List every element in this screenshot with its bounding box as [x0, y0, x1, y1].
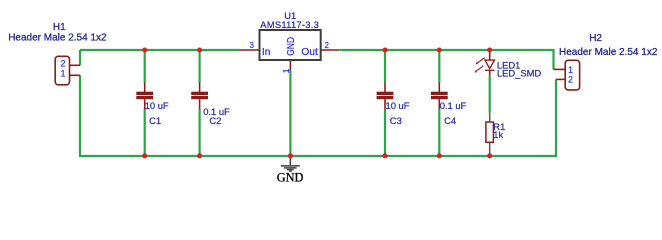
svg-text:H1: H1: [53, 22, 66, 33]
svg-text:1: 1: [281, 68, 291, 73]
svg-text:H2: H2: [589, 33, 602, 44]
svg-text:1k: 1k: [493, 129, 503, 140]
svg-text:2: 2: [568, 75, 573, 85]
svg-text:1: 1: [61, 68, 66, 78]
svg-text:3: 3: [250, 41, 255, 50]
svg-text:10 uF: 10 uF: [386, 100, 410, 111]
svg-text:1: 1: [568, 65, 573, 75]
svg-text:C1: C1: [149, 115, 161, 126]
svg-text:In: In: [262, 47, 271, 58]
svg-text:C3: C3: [390, 115, 402, 126]
svg-text:AMS1117-3.3: AMS1117-3.3: [260, 19, 319, 30]
svg-text:Header Male 2.54 1x2: Header Male 2.54 1x2: [559, 47, 658, 58]
svg-text:GND: GND: [286, 37, 297, 56]
svg-text:0.1 uF: 0.1 uF: [440, 100, 467, 111]
svg-text:GND: GND: [277, 171, 304, 185]
svg-text:10 uF: 10 uF: [145, 100, 169, 111]
svg-text:C4: C4: [444, 115, 456, 126]
svg-text:LED_SMD: LED_SMD: [497, 67, 542, 78]
svg-text:C2: C2: [209, 115, 221, 126]
svg-text:Header Male 2.54 1x2: Header Male 2.54 1x2: [8, 33, 107, 44]
svg-text:Out: Out: [301, 47, 318, 58]
svg-text:2: 2: [325, 41, 330, 50]
svg-text:2: 2: [61, 58, 66, 68]
